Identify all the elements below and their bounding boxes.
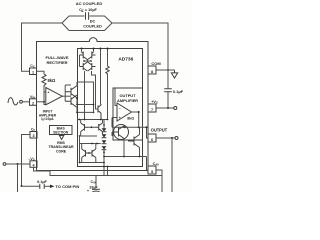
transistor Q13 [89,149,96,158]
coupling selector lens top path [62,16,112,23]
transistor Q4 [88,62,96,71]
wire from pin1 CC up and across top [22,23,63,71]
svg-text:0.1µF: 0.1µF [173,89,184,94]
wire resistor to bus [107,74,109,120]
wire middle horizontal [77,104,94,106]
svg-text:AD736: AD736 [118,56,133,62]
pair B wiring [80,136,96,163]
svg-text:CORE: CORE [56,149,67,153]
wire capacitor to +VS [167,92,169,108]
transistor Q7 [81,123,88,132]
transistor Q5 [65,86,77,98]
wire 8k to op-amp inverting input [44,87,46,105]
capacitor CAV [92,188,100,190]
wire pin3 CF down [22,135,31,187]
resistor 8k internal vertical [106,66,109,74]
svg-text:8kΩ: 8kΩ [48,78,57,83]
op-amp U1 input amplifier [46,88,63,105]
junction dots on inner box bottom [103,166,105,168]
svg-text:CAV: CAV [153,162,159,167]
pin 6 box OUTPUT [148,128,168,142]
core transistor pair B [82,149,96,158]
svg-text:CC = 10µF: CC = 10µF [79,8,97,13]
wire COM to ground [156,69,175,71]
transistor Q2 [88,52,96,60]
transistor Q12 [98,104,101,120]
output amplifier box [113,88,143,140]
svg-text:VIN: VIN [30,95,35,100]
wire CAV pin down [156,170,162,192]
diode stack [102,128,107,149]
pin 7 box +VS [148,100,158,112]
rail mid core [80,135,98,137]
wire COM to capacitor [167,70,169,88]
resistor 8k input [37,71,45,74]
diode D2 [102,134,107,137]
wire lens to COM [112,23,168,70]
transistor Q8 [95,123,103,132]
svg-text:COUPLED: COUPLED [83,24,102,28]
rail core second [80,143,101,145]
wire OUTPUT to terminal [156,137,175,139]
IC box AD736 outline with hop [37,38,149,171]
transistor Q6 [65,95,77,107]
bottom rail inside right [104,157,148,171]
rail core bottom left [80,162,105,164]
svg-text:+: + [87,189,89,192]
ground symbol [171,70,177,78]
svg-text:5: 5 [151,170,153,174]
buffer transistors after input amp [65,86,77,108]
svg-text:CF: CF [31,127,36,132]
svg-text:AC COUPLED: AC COUPLED [76,1,103,6]
arrow to COM pin [50,185,54,188]
svg-text:+VS: +VS [151,100,158,105]
wire source to pin2 [22,101,29,103]
svg-text:+: + [47,90,49,94]
wire to inverting input [115,88,117,106]
svg-text:6: 6 [151,138,153,142]
svg-text:CAV: CAV [90,180,96,185]
wire pin2 to op-amp [37,101,45,103]
svg-text:8kΩ: 8kΩ [127,116,134,120]
diode D1 [102,128,107,131]
op-amp U2 output amplifier [117,103,132,121]
pin 8 box COM [148,61,161,74]
transistor Q11 [128,135,140,148]
pin 3 box CF [30,127,37,138]
wire -VS down left side [17,164,19,192]
wire junction to capacitor [22,185,40,187]
transistor Q3 [80,62,88,71]
pin 1 box CC [30,64,37,75]
coupling selector lens bottom path [62,23,112,31]
diode stack wire [104,120,108,176]
feedback wire [112,118,147,128]
svg-text:33µF: 33µF [89,185,98,189]
pin 4 box -VS [28,157,37,168]
pair A wiring [81,120,103,137]
capacitor 0.1uF right [164,89,172,92]
svg-text:–: – [119,107,121,111]
capacitor CC coupling [86,12,89,20]
svg-text:2: 2 [32,101,34,105]
wire CAV cap drop [95,176,97,189]
junction CF bottom [21,185,23,187]
wire feedback node to pin6 [147,127,149,138]
wire op-amp output to buffer [62,95,71,97]
buffer wiring [65,82,77,112]
wire capacitor to arrow [44,185,50,187]
bus row with junctions [78,119,108,121]
full-wave rectifier mirror transistors [80,52,96,72]
junction VIN node [43,101,45,103]
input terminal circle [20,100,23,103]
svg-text:IB<10µA: IB<10µA [41,117,54,122]
svg-text:–: – [47,101,49,105]
svg-text:TO COM PIN: TO COM PIN [56,184,80,189]
transistor Q9 [82,149,89,158]
capacitor 0.1uF left [40,184,44,189]
svg-text:COM: COM [151,61,161,66]
svg-text:8: 8 [151,70,153,74]
pin 2 box VIN [30,95,37,106]
mirror wiring [80,49,99,120]
svg-text:CC: CC [30,64,35,69]
inner section box [78,49,143,167]
svg-text:1: 1 [32,71,34,75]
wire -VS terminal to pin4 [3,163,6,166]
junction COM [167,69,169,71]
junction -VS [17,163,19,165]
wire collector loop [77,82,94,112]
pin 5 box CAV [148,162,159,174]
svg-text:DC: DC [90,20,96,24]
svg-text:OUTPUT: OUTPUT [151,128,168,133]
rails from rail to core [101,49,108,105]
core transistor pair A [81,123,103,132]
svg-text:+: + [119,116,121,120]
transistor Q1 [80,52,88,60]
wire +VS to terminal [156,107,174,109]
sine input source [8,98,18,105]
wire emitters bus [77,111,94,113]
wire OUTPUT down [171,138,173,192]
diode D4 [102,146,107,149]
bias section box [50,126,73,135]
svg-text:AMPLIFIER: AMPLIFIER [117,98,138,103]
transistor Q10 output stage [114,125,129,140]
output wire of op-amp [132,112,139,127]
svg-text:7: 7 [151,108,153,112]
bias arrow triangle [59,136,63,140]
svg-text:RECTIFIER: RECTIFIER [46,60,67,65]
svg-text:–VS: –VS [28,157,34,162]
svg-text:0.1µF: 0.1µF [37,180,47,184]
diode D3 [102,140,107,143]
svg-text:3: 3 [32,134,34,138]
svg-text:SECTION: SECTION [53,131,69,135]
wire pin4 stub down to -VS rail [34,167,163,175]
